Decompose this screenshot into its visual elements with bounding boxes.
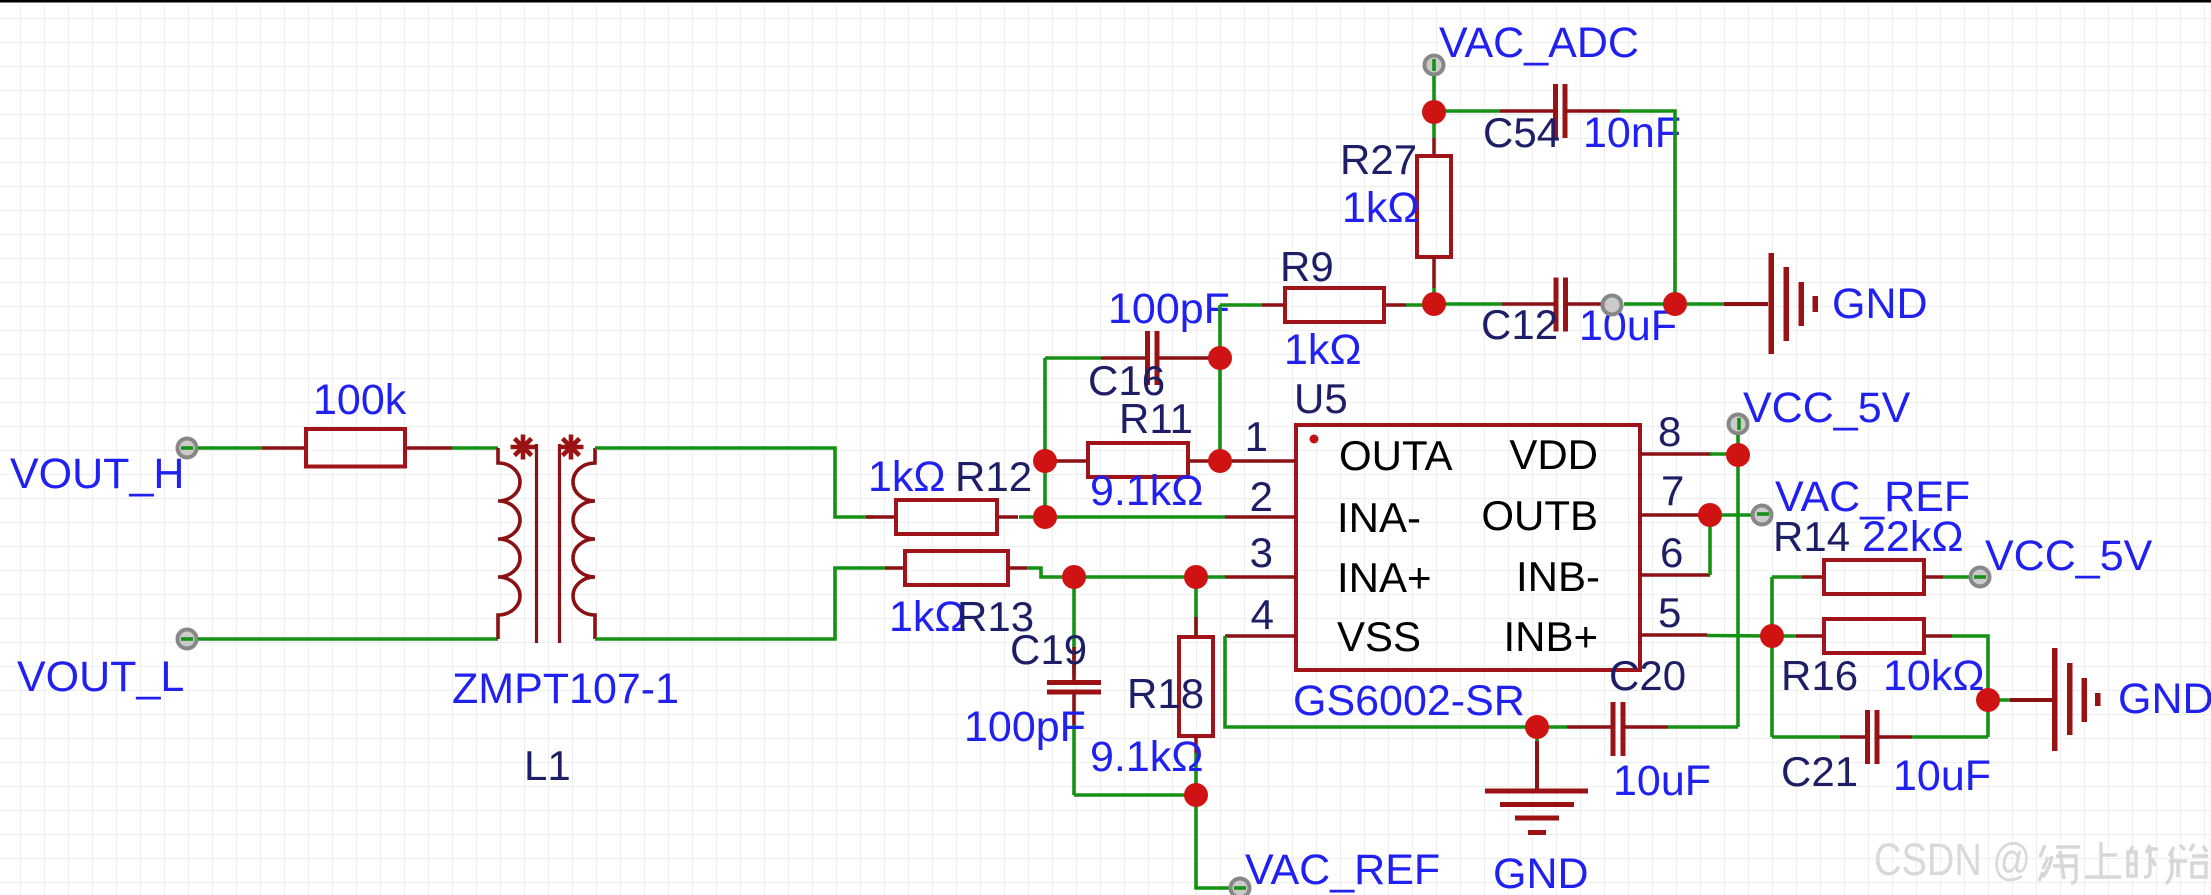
junction pin8/VCC: [1726, 443, 1750, 467]
svg-text:R9: R9: [1280, 243, 1334, 290]
svg-text:OUTA: OUTA: [1339, 432, 1453, 479]
ground GND bottom earth: [1485, 727, 1589, 895]
junction pin1: [1208, 449, 1232, 473]
wire C16/R11/R12 vertical: [1043, 358, 1047, 517]
capacitor C19: [964, 577, 1101, 795]
svg-text:7: 7: [1661, 467, 1684, 514]
wire pin7 junction to VAC_REF port: [1704, 513, 1752, 517]
U5 pin 3: [1225, 575, 1296, 579]
wire vertical up to R9 row: [1220, 303, 1262, 307]
transformer L1 secondary winding: [573, 448, 595, 639]
junction R12/pin2: [1033, 505, 1057, 529]
resistor R13: [885, 551, 1034, 641]
junction C54/C12/GND: [1663, 292, 1687, 316]
resistor R9: [1262, 243, 1406, 374]
wire R13 to pin3 net with jog: [1027, 568, 1074, 577]
svg-text:9.1kΩ: 9.1kΩ: [1090, 733, 1203, 781]
resistor R14: [1772, 513, 1963, 594]
resistor R12: [866, 453, 1032, 534]
resistor 100k: [262, 376, 452, 467]
junction C19 top: [1062, 565, 1086, 589]
svg-text:R11: R11: [1119, 395, 1193, 442]
capacitor C21: [1772, 710, 1991, 800]
svg-text:VAC_REF: VAC_REF: [1245, 846, 1440, 894]
svg-text:GND: GND: [1832, 280, 1928, 328]
U5 pin 2: [1225, 515, 1296, 519]
svg-text:GND: GND: [2118, 675, 2211, 723]
op-amp U5 body: [1296, 425, 1640, 670]
junction pin7: [1698, 503, 1722, 527]
U5 pin 5: [1640, 633, 1707, 637]
wire C16/pin1 vertical: [1218, 305, 1222, 461]
capacitor C54: [1434, 84, 1681, 157]
wire vertical R14 to C21: [1770, 577, 1774, 737]
svg-text:INB-: INB-: [1516, 553, 1600, 600]
ground GND right: [2010, 648, 2211, 751]
svg-text:1kΩ: 1kΩ: [1342, 184, 1420, 232]
junction R18 top: [1184, 565, 1208, 589]
svg-text:U5: U5: [1294, 375, 1348, 422]
wire to VAC_REF port: [1196, 795, 1231, 888]
transformer L1 polarity star right: [559, 435, 584, 460]
wire VOUT_H to 100k: [198, 446, 262, 450]
transformer L1 core: [535, 444, 538, 643]
svg-text:VOUT_H: VOUT_H: [10, 450, 184, 498]
svg-text:INA-: INA-: [1337, 494, 1421, 541]
wire pin5 to junction: [1707, 634, 1772, 638]
junction GND bottom: [1525, 715, 1549, 739]
node VAC_REF bottom: [1231, 846, 1441, 895]
junction VAC_ADC/C54/R27: [1422, 100, 1446, 124]
U5 pin 6: [1640, 573, 1710, 577]
svg-text:9.1kΩ: 9.1kΩ: [1090, 467, 1203, 515]
node VAC_ADC: [1425, 19, 1639, 75]
wire R12 to pin2 junction: [1019, 515, 1045, 519]
svg-text:OUTB: OUTB: [1481, 492, 1598, 539]
resistor R16: [1772, 619, 1984, 700]
ground GND top right: [1724, 253, 1928, 354]
U5 pin 7: [1640, 513, 1704, 517]
U5 pin 1: [1220, 459, 1296, 463]
wire VOUT_L to transformer: [198, 637, 498, 641]
svg-text:10nF: 10nF: [1583, 109, 1681, 157]
node VCC_5V top: [1729, 384, 1911, 434]
junction R9/C12: [1422, 292, 1446, 316]
node VAC_REF right: [1753, 473, 1971, 525]
svg-text:4: 4: [1251, 591, 1274, 638]
black top edge bar: [0, 0, 2211, 3]
wire pin3 net: [1074, 575, 1225, 579]
svg-text:6: 6: [1660, 529, 1683, 576]
svg-text:VCC_5V: VCC_5V: [1985, 532, 2153, 580]
svg-text:10kΩ: 10kΩ: [1883, 652, 1984, 700]
svg-text:VAC_ADC: VAC_ADC: [1439, 19, 1639, 67]
capacitor C12: [1434, 278, 1677, 351]
resistor R11: [1055, 395, 1216, 515]
svg-text:10uF: 10uF: [1893, 752, 1991, 800]
svg-text:100pF: 100pF: [964, 703, 1086, 751]
svg-text:INB+: INB+: [1503, 613, 1598, 660]
svg-text:C19: C19: [1010, 626, 1087, 673]
wire VCC port to junction: [1736, 435, 1740, 455]
node VOUT_H: [10, 439, 197, 499]
junction GND right: [1976, 688, 2000, 712]
svg-text:1kΩ: 1kΩ: [868, 453, 946, 501]
wire pin2 net: [1045, 515, 1225, 519]
transformer L1 primary winding: [498, 448, 520, 639]
svg-text:10uF: 10uF: [1613, 757, 1711, 805]
wire transformer bottom to R13: [595, 568, 885, 639]
svg-text:10uF: 10uF: [1579, 302, 1677, 350]
wire VCC vertical to C20 row: [1736, 455, 1740, 727]
wire VAC_ADC down: [1432, 76, 1436, 112]
junction R11 left: [1033, 449, 1057, 473]
svg-text:VOUT_L: VOUT_L: [17, 653, 184, 701]
svg-text:R18: R18: [1127, 670, 1204, 717]
svg-text:VDD: VDD: [1509, 431, 1598, 478]
svg-text:L1: L1: [524, 742, 571, 789]
svg-text:2: 2: [1250, 473, 1273, 520]
U5 pin 4: [1225, 634, 1296, 638]
svg-text:1: 1: [1245, 413, 1268, 460]
svg-text:CSDN @: CSDN @: [1874, 834, 2031, 885]
svg-text:VSS: VSS: [1337, 613, 1421, 660]
svg-text:R16: R16: [1781, 652, 1858, 699]
wire pin4 down and across: [1225, 636, 1537, 727]
svg-text:R14: R14: [1773, 513, 1850, 560]
junction pin5/R16: [1760, 624, 1784, 648]
svg-text:C21: C21: [1781, 748, 1858, 795]
wire pin8 to junction: [1710, 452, 1738, 456]
svg-text:3: 3: [1250, 529, 1273, 576]
wire R9 to junction: [1406, 303, 1434, 307]
resistor R27: [1340, 112, 1451, 305]
wire R14 to VCC port: [1943, 575, 1969, 579]
svg-text:C12: C12: [1481, 301, 1558, 348]
junction VAC_REF bottom: [1184, 783, 1208, 807]
svg-text:1kΩ: 1kΩ: [889, 593, 967, 641]
wire junction to GND right: [1988, 698, 2011, 702]
capacitor C16: [1045, 285, 1230, 404]
node VOUT_L: [17, 630, 197, 702]
capacitor C20: [1537, 652, 1738, 805]
svg-text:C20: C20: [1609, 652, 1686, 699]
wire R16 right corner down: [1952, 636, 1988, 737]
svg-text:ZMPT107-1: ZMPT107-1: [452, 665, 679, 713]
wire pin7 down to pin6: [1708, 515, 1712, 575]
grey pin circle C12 right: [1603, 296, 1622, 315]
node VCC_5V right: [1971, 532, 2153, 587]
U5 pin 8: [1640, 452, 1712, 456]
svg-text:100pF: 100pF: [1108, 285, 1230, 333]
svg-text:R27: R27: [1340, 136, 1417, 183]
svg-text:5: 5: [1658, 589, 1681, 636]
resistor R18: [1090, 577, 1213, 795]
svg-text:GS6002-SR: GS6002-SR: [1293, 677, 1525, 725]
junction C16 right: [1208, 346, 1232, 370]
wire C54 right down to GND row: [1620, 111, 1675, 304]
wire transformer top to R12: [595, 448, 874, 517]
wire C12 circle to junction: [1624, 302, 1675, 306]
wire junction to GND: [1675, 302, 1724, 306]
svg-text:INA+: INA+: [1337, 554, 1432, 601]
svg-text:100k: 100k: [313, 376, 407, 424]
svg-text:1kΩ: 1kΩ: [1284, 326, 1362, 374]
svg-text:GND: GND: [1493, 850, 1589, 895]
svg-text:R12: R12: [955, 453, 1032, 500]
svg-text:8: 8: [1658, 408, 1681, 455]
svg-text:C54: C54: [1483, 109, 1560, 156]
wire C19 bottom to R18 bottom: [1074, 793, 1196, 797]
wire 100k to transformer: [452, 446, 498, 450]
svg-text:22kΩ: 22kΩ: [1862, 513, 1963, 561]
svg-text:VCC_5V: VCC_5V: [1743, 384, 1911, 432]
transformer L1 polarity star left: [511, 435, 536, 460]
